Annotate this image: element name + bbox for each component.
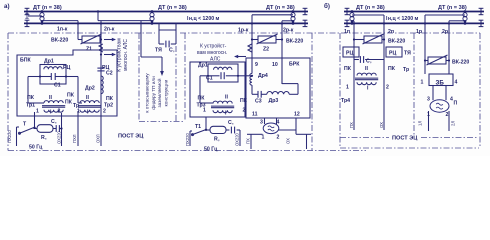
svg-text:ДТ (n = 38): ДТ (n = 38)	[158, 5, 187, 11]
svg-text:Тр4: Тр4	[341, 98, 350, 104]
svg-text:П: П	[454, 101, 458, 107]
svg-text:ВК-220: ВК-220	[51, 38, 68, 44]
svg-text:2: 2	[277, 135, 280, 141]
svg-text:ПК: ПК	[198, 96, 206, 102]
svg-text:4: 4	[277, 119, 280, 125]
svg-text:1: 1	[77, 109, 80, 115]
svg-text:2: 2	[386, 85, 389, 91]
svg-text:1: 1	[262, 135, 265, 141]
svg-text:1п: 1п	[344, 29, 350, 35]
svg-text:РЦ: РЦ	[389, 51, 396, 57]
svg-text:9: 9	[255, 62, 258, 68]
svg-text:ПК: ПК	[344, 66, 352, 72]
svg-text:Др1: Др1	[44, 59, 54, 65]
svg-text:С1: С1	[54, 83, 61, 89]
svg-text:1п-к: 1п-к	[57, 27, 68, 33]
svg-text:вам многосн.: вам многосн.	[197, 50, 227, 56]
svg-text:Др1: Др1	[198, 63, 208, 69]
svg-text:ПХ: ПХ	[246, 138, 251, 144]
svg-text:Z2: Z2	[263, 47, 269, 53]
svg-text:2: 2	[243, 108, 246, 114]
svg-text:АЛС: АЛС	[210, 57, 221, 63]
svg-text:ВК-220: ВК-220	[286, 39, 303, 45]
svg-text:1: 1	[203, 108, 206, 114]
svg-text:Z1: Z1	[86, 47, 92, 53]
svg-text:4: 4	[455, 80, 458, 86]
svg-text:К устройствам: К устройствам	[116, 38, 123, 72]
svg-text:ТЯ: ТЯ	[404, 51, 411, 57]
svg-text:ПК: ПК	[65, 100, 73, 106]
svg-text:С ,: С ,	[228, 120, 234, 126]
svg-text:ОХ: ОХ	[379, 122, 384, 128]
svg-text:2р-к: 2р-к	[283, 28, 294, 34]
svg-text:С ,: С ,	[366, 59, 372, 65]
svg-text:ОХ220: ОХ220	[235, 132, 240, 146]
svg-text:РЦ: РЦ	[63, 65, 70, 71]
svg-text:ОХ220: ОХ220	[56, 130, 61, 144]
svg-text:Тр: Тр	[403, 67, 409, 73]
svg-text:ДТ (n = 38): ДТ (n = 38)	[438, 5, 467, 11]
svg-text:ПК: ПК	[388, 66, 396, 72]
svg-text:ПК: ПК	[240, 98, 248, 104]
svg-text:а): а)	[4, 3, 10, 10]
svg-text:l н,ц < 1200 м: l н,ц < 1200 м	[386, 16, 419, 22]
svg-text:ДТ (n = 38): ДТ (n = 38)	[356, 5, 385, 11]
svg-text:ПХЛ: ПХЛ	[72, 134, 77, 143]
svg-text:заземляемой: заземляемой	[156, 78, 162, 107]
svg-text:ВК-220: ВК-220	[452, 60, 469, 66]
svg-text:ПОСТ ЭЦ: ПОСТ ЭЦ	[118, 134, 144, 140]
svg-text:R ,: R ,	[214, 137, 220, 143]
svg-text:2р: 2р	[442, 29, 448, 35]
svg-text:R ,: R ,	[41, 135, 47, 141]
svg-text:ДТ (n = 38): ДТ (n = 38)	[33, 5, 62, 11]
svg-text:ПК: ПК	[27, 95, 35, 101]
svg-text:1: 1	[427, 112, 430, 118]
svg-text:ПК: ПК	[67, 93, 75, 99]
svg-text:1р-к: 1р-к	[238, 28, 249, 34]
svg-text:50 Гц: 50 Гц	[204, 147, 218, 153]
svg-text:ПХ220: ПХ220	[185, 133, 190, 146]
svg-text:2п-к: 2п-к	[104, 27, 115, 33]
svg-text:Др2: Др2	[85, 86, 95, 92]
svg-text:2: 2	[446, 112, 449, 118]
svg-text:БРК: БРК	[289, 62, 300, 68]
svg-text:РЦ: РЦ	[346, 51, 353, 57]
svg-text:10: 10	[272, 62, 278, 68]
svg-text:БПК: БПК	[20, 58, 31, 64]
svg-text:фидеру ТП или: фидеру ТП или	[151, 76, 156, 110]
svg-text:Тр1: Тр1	[26, 103, 35, 109]
svg-text:ПХ: ПХ	[349, 122, 354, 128]
svg-text:12: 12	[294, 112, 300, 118]
svg-text:1: 1	[346, 85, 349, 91]
svg-text:2Л: 2Л	[451, 121, 456, 126]
svg-text:С1: С1	[206, 76, 213, 82]
svg-text:3: 3	[260, 119, 263, 125]
svg-text:2п: 2п	[388, 29, 394, 35]
svg-text:ОХ: ОХ	[286, 138, 291, 144]
svg-text:1: 1	[36, 109, 39, 115]
svg-text:11: 11	[252, 112, 258, 118]
svg-text:С3: С3	[255, 98, 262, 104]
svg-text:к отсасывающему: к отсасывающему	[145, 73, 150, 113]
svg-text:Др4: Др4	[258, 73, 268, 79]
svg-text:ТЯ: ТЯ	[155, 48, 162, 54]
svg-text:С ,: С ,	[51, 119, 57, 125]
svg-text:2: 2	[58, 109, 61, 115]
svg-text:К устройст-: К устройст-	[200, 43, 227, 50]
svg-text:Т1: Т1	[195, 124, 201, 130]
svg-text:3: 3	[427, 97, 430, 103]
svg-text:ПК: ПК	[106, 96, 114, 102]
svg-text:50 Гц: 50 Гц	[29, 145, 43, 151]
svg-text:2: 2	[103, 109, 106, 115]
svg-text:б): б)	[324, 3, 330, 10]
svg-text:ПОСТ ЭЦ: ПОСТ ЭЦ	[392, 136, 418, 142]
svg-text:ПХ220: ПХ220	[7, 130, 12, 143]
svg-text:С2: С2	[106, 71, 113, 77]
svg-text:ВК-220: ВК-220	[388, 39, 405, 45]
svg-text:1Л: 1Л	[418, 121, 423, 126]
svg-text:ЗБ: ЗБ	[436, 80, 445, 87]
svg-text:l н,ц < 1200 м: l н,ц < 1200 м	[187, 16, 220, 22]
svg-text:многосн. АЛС: многосн. АЛС	[123, 39, 129, 71]
svg-text:С ,: С ,	[169, 48, 175, 54]
svg-text:конструкции: конструкции	[163, 79, 168, 106]
svg-text:Др3: Др3	[269, 98, 279, 104]
svg-text:1: 1	[421, 80, 424, 86]
svg-text:1р: 1р	[416, 29, 422, 35]
svg-text:ОХЛ: ОХЛ	[96, 134, 101, 143]
svg-text:ДТ (n = 38): ДТ (n = 38)	[266, 5, 295, 11]
